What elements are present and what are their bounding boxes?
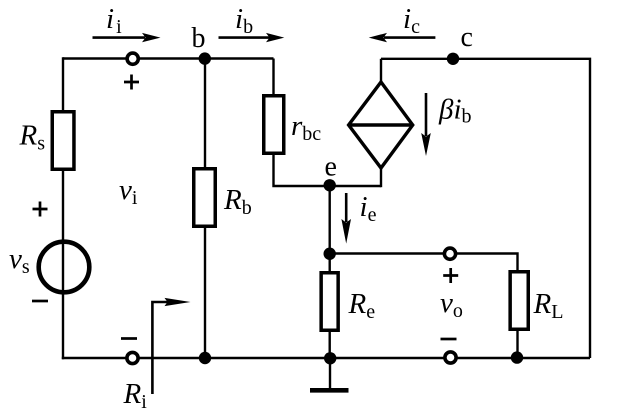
svg-text:e: e xyxy=(325,152,337,183)
svg-text:c: c xyxy=(461,22,473,53)
svg-text:b: b xyxy=(192,23,206,54)
